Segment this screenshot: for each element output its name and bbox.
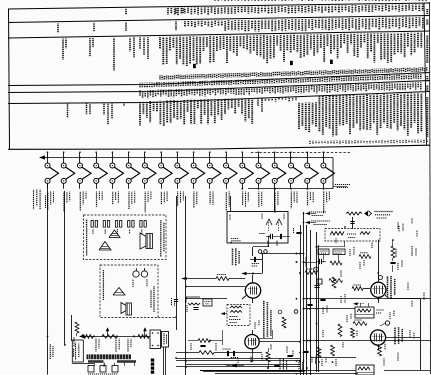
switch position label 17 xyxy=(307,192,309,207)
IF transformer T2 xyxy=(355,307,374,318)
bottom IF transformer xyxy=(356,365,374,375)
switch position label 15 xyxy=(274,192,276,213)
junction on lower rail xyxy=(274,188,276,190)
switch position label 13 xyxy=(242,192,244,206)
tweeter cone symbol 1 xyxy=(109,230,120,238)
junction on lower rail xyxy=(290,188,292,190)
speaker box rotated label right xyxy=(160,220,162,257)
tuner switch contact column 14 xyxy=(256,151,270,188)
wire x231 down from switch area xyxy=(230,196,232,212)
tuner switch contact column 12 xyxy=(224,151,238,188)
socket pin arcs below shield box xyxy=(258,250,262,254)
components cluster left of V6 xyxy=(198,339,210,343)
parts list table rule 4 xyxy=(8,73,430,86)
switch position label 16 xyxy=(290,192,292,209)
V3 plate load resistor chain xyxy=(391,246,395,258)
parts list table rule 6 xyxy=(8,92,430,104)
label TO IF OUTPUT OF TUNER xyxy=(374,211,393,213)
switch position label 1 xyxy=(47,192,49,211)
plate coil winding 2 xyxy=(360,232,370,235)
resistor left of volume line xyxy=(75,322,79,333)
parts list table bottom rule xyxy=(8,145,430,149)
tuner switch contact column 9 xyxy=(175,151,189,188)
antenna input labels xyxy=(33,190,35,210)
wire resistor to V7 xyxy=(229,278,245,280)
resistor volume xyxy=(199,351,214,355)
extra audio label smudges xyxy=(250,356,252,363)
extra bundle junction dots xyxy=(296,261,298,263)
tuner switch contact column 15 xyxy=(272,151,286,188)
cut-off text row above table top rule xyxy=(214,0,216,2)
tuner switch contact column 4 xyxy=(94,151,108,188)
resistor on volume line 2 xyxy=(102,335,117,339)
screen supply vertical wire xyxy=(316,232,318,372)
label V6 6T8 SOUND DISC xyxy=(263,300,265,338)
resistor on volume line 3 xyxy=(138,335,149,339)
discriminator coils xyxy=(230,306,242,308)
wire to RF unit with label P1L TO RF BROWN xyxy=(333,186,347,188)
wire right edge vertical xyxy=(420,299,422,341)
audio wire rows xyxy=(176,358,300,360)
volume control area wire xyxy=(176,352,199,354)
switch position label 2 xyxy=(63,192,65,212)
plate coil winding 1 xyxy=(330,232,344,236)
table band C bold section digits xyxy=(193,64,196,68)
wire B+ to T2 row xyxy=(304,308,356,310)
boxed speaker plug label left xyxy=(72,340,83,362)
antenna bus wire xyxy=(40,157,333,159)
wires from transformer down xyxy=(94,363,96,366)
arrow into discriminator box xyxy=(221,312,226,315)
electrolytic capacitor xyxy=(314,267,319,272)
diode arrow symbol audio xyxy=(231,364,236,368)
resistor horizontal mid right xyxy=(359,255,371,259)
plate wire with arrow above V7 xyxy=(242,273,262,275)
screen supply vertical wire 2 xyxy=(318,245,320,372)
tuner switch contact column 7 xyxy=(142,151,156,188)
wire V7 area vertical xyxy=(262,254,264,274)
sound IF coil top left cluster xyxy=(186,297,200,303)
switch position label 8 xyxy=(160,192,162,205)
caps on audio line xyxy=(227,351,229,356)
tuner switch contact column 1 xyxy=(45,151,59,188)
V3 grid components xyxy=(317,279,322,284)
switch position label 12 xyxy=(225,192,227,211)
tuner switch contact column 10 xyxy=(191,151,205,188)
wire under V3 row xyxy=(304,298,431,300)
third vertical wire near amp xyxy=(71,315,73,341)
wire V4 plate to right xyxy=(386,337,420,339)
B+ bus vertical wire 1 xyxy=(300,225,302,375)
resistor near x305 xyxy=(305,271,317,275)
wire V7 grid row 2 xyxy=(186,286,245,288)
label AGC TO RF YELLOW xyxy=(305,212,310,215)
label V3 6CB6 1ST IF xyxy=(387,276,389,297)
tweeter cone symbol 2 xyxy=(99,242,111,251)
table band A row of rotated part numbers xyxy=(167,8,169,15)
table band C bottom row of digits xyxy=(159,75,161,79)
resistor v near 352 xyxy=(351,328,355,338)
tuner switch contact column 17 xyxy=(305,151,319,188)
wire row mid xyxy=(304,340,431,342)
speaker box rotated label left xyxy=(86,219,88,256)
speaker connector double wire xyxy=(163,348,165,375)
discriminator test point circles xyxy=(278,310,282,314)
small resistor under boxes xyxy=(330,261,342,265)
small coil left of discriminator xyxy=(188,303,200,305)
table band F rotated description texture left group xyxy=(139,101,141,126)
coupling capacitor above V7 xyxy=(254,257,256,262)
speaker symbol in top box xyxy=(140,233,146,249)
label on V7 grid resistor xyxy=(217,274,226,276)
label TEL INT upper xyxy=(49,344,51,359)
long wire from switch down left side xyxy=(47,183,49,374)
IF plate coil dashed box xyxy=(325,229,380,242)
B+ bus vertical wire 3 xyxy=(306,225,308,375)
sound takeoff shield box xyxy=(227,212,288,244)
bottom long wire xyxy=(215,373,358,375)
shield box internal labels xyxy=(231,238,239,240)
IF output plug symbol xyxy=(364,211,368,216)
boxed label component 1 xyxy=(318,249,329,255)
table band F sparse middle marks xyxy=(257,98,259,106)
table band C rotated description column texture xyxy=(159,37,161,49)
boxed label component 2 xyxy=(333,249,345,255)
resistor on volume line 1 xyxy=(82,335,93,339)
junction dots scattered xyxy=(252,273,254,275)
dashed wire from box2 to right xyxy=(158,317,176,319)
switch position label 10 xyxy=(193,192,195,209)
labels under volume line xyxy=(95,339,97,352)
twisted pair wire to IF output xyxy=(346,212,362,215)
capacitor on vertical wire x178 xyxy=(174,299,178,301)
resistor to V3 grid xyxy=(352,287,363,291)
V6 area label smudges xyxy=(261,354,263,361)
resistor below discriminator xyxy=(282,317,286,328)
misc right-side labels xyxy=(411,246,413,256)
phono coil symbols in box 2 xyxy=(133,271,139,277)
switch position label 14 xyxy=(258,192,260,207)
wire bottom right area xyxy=(304,370,357,372)
connect wires in trap cluster xyxy=(323,255,325,260)
parts list table rule 2 xyxy=(8,16,430,23)
label V7 6AU6 SOUND LIM xyxy=(232,248,234,265)
capacitor on B+ wire xyxy=(296,232,301,234)
table band E row of tiny text xyxy=(139,90,141,95)
label 5640 bold xyxy=(151,359,154,362)
antenna bus left arrowhead xyxy=(39,155,45,159)
V6 plate wires xyxy=(259,341,300,343)
switch position label 11 xyxy=(209,192,211,205)
table band D row of tiny text xyxy=(139,83,141,88)
cap at 317 286 xyxy=(314,285,319,287)
wire to discriminator row xyxy=(186,298,227,300)
right-side vertical wire extension xyxy=(420,341,422,370)
table header column rotated captions xyxy=(426,9,428,14)
wire from shield box bottom to V7 xyxy=(268,236,270,247)
parts list table rule 5 xyxy=(8,81,430,93)
tuner switch contact column 5 xyxy=(110,151,124,188)
up arrow tap 2 xyxy=(144,329,146,337)
wire V7 left to resistor xyxy=(182,278,216,280)
resistor v near 340 xyxy=(338,324,342,337)
wire from lower rail down to shield box xyxy=(274,189,276,211)
arrow symbol below V3 xyxy=(353,302,358,305)
second speaker dashed box xyxy=(100,265,158,318)
table band B row of rotated part numbers xyxy=(184,21,186,27)
trap capacitors xyxy=(319,259,321,264)
tuner switch contact column 8 xyxy=(159,151,173,188)
V4 grid cap circle xyxy=(385,321,389,325)
arrow left volume line xyxy=(79,334,85,338)
tuner switch contact column 2 xyxy=(61,151,74,188)
switch position label 7 xyxy=(144,192,146,213)
table band F rotated description texture right group xyxy=(298,103,300,130)
table band F short marks middle xyxy=(261,98,263,101)
resistor R grid V7 xyxy=(216,277,229,281)
resistor h 280 xyxy=(329,279,343,283)
tuner switch contact column 11 xyxy=(207,151,221,188)
parts list table inner right rule xyxy=(424,3,427,145)
switch lower rail wire xyxy=(248,188,333,190)
junction on lower rail xyxy=(306,188,308,190)
transformer lower winding segments xyxy=(88,360,104,363)
speaker symbol in box 2 xyxy=(121,303,126,314)
switch position label 4 xyxy=(96,192,98,207)
vertical wire from switch label area x176 xyxy=(176,196,178,330)
dashed interconnect wire below table xyxy=(251,152,350,154)
label V4 6CB6 2ND IF xyxy=(394,327,396,345)
parts list table top rule xyxy=(8,3,430,9)
decoupling capacitor pair near shield box xyxy=(270,234,272,239)
second long vertical wire xyxy=(64,191,66,345)
caps near V6 xyxy=(287,355,292,357)
up arrow tap 1 xyxy=(107,329,109,337)
label U2 sound takeoff xyxy=(279,358,281,372)
tuner switch contact column 3 xyxy=(78,151,92,188)
audio output transformer winding bar xyxy=(87,354,132,359)
wire V6 to audio row xyxy=(252,353,254,362)
bottom left tiny labels xyxy=(88,373,118,375)
switch position label 3 xyxy=(79,192,81,211)
tuner switch contact column 16 xyxy=(289,151,303,188)
tube V4 6CB6 second IF amp xyxy=(370,330,385,345)
B+ bus vertical wire 4 xyxy=(310,230,312,375)
small boxed part near coil xyxy=(203,299,212,306)
box 2 rotated label xyxy=(102,270,104,300)
screen resistors bottom row xyxy=(317,347,321,357)
terminal strip capacitors in speaker box xyxy=(91,221,93,228)
short feed wires right side xyxy=(317,246,346,248)
V3 grid cap circle xyxy=(379,276,383,280)
caps near B+ bottom xyxy=(307,304,312,306)
switch position label 5 xyxy=(112,192,114,205)
wire across to bundle xyxy=(262,253,304,255)
tuner switch contact column 13 xyxy=(240,151,254,188)
V3 right wires xyxy=(389,298,420,300)
terminal blocks bottom left xyxy=(88,366,94,373)
vertical wire x186 xyxy=(185,196,187,375)
arrow on V7 input wire xyxy=(182,277,187,281)
resistor h below T2 xyxy=(353,322,367,326)
tube V3 6CB6 first IF amp xyxy=(371,282,386,297)
parts list table outer border (left) xyxy=(9,9,10,150)
B+ bus vertical wire 2 xyxy=(303,212,305,375)
boxed connector label left of V6 xyxy=(162,332,169,348)
speaker cabinet dashed box (top) xyxy=(84,215,167,260)
tuner switch contact column 6 xyxy=(126,151,140,188)
junction on lower rail xyxy=(258,188,260,190)
tube V6 6T8 sound disc xyxy=(245,335,259,349)
parts list table rule 3 xyxy=(8,31,430,38)
output transformer box right xyxy=(150,330,161,349)
switch position label 18 xyxy=(323,192,325,214)
tube V7 6AU6 sound limiter xyxy=(245,283,260,298)
switch position label 6 xyxy=(128,192,130,210)
junction dots on volume line xyxy=(93,335,95,337)
wire from plate coil box down to V3 xyxy=(378,240,380,278)
sound discriminator dashed box xyxy=(227,305,250,326)
wire joining verticals to amp xyxy=(72,363,94,365)
tuner switch contact column 18 xyxy=(321,151,335,188)
label SOUND TIM rotated on bus xyxy=(305,257,307,267)
page right edge rule xyxy=(430,2,431,374)
V6 cathode resistor xyxy=(266,352,270,362)
switch row right end wire xyxy=(332,158,334,189)
label B+ 140V TO RF RED xyxy=(305,221,310,224)
volume pot line xyxy=(80,336,150,338)
wire plug down to coil box xyxy=(352,217,354,229)
label TEL INT lower xyxy=(73,348,75,357)
trimmer symbols inside shield box xyxy=(266,219,272,225)
extra bundle dots bottom xyxy=(299,360,301,362)
switch position label 9 xyxy=(177,192,179,207)
extra right-side label smudges xyxy=(349,249,351,256)
table band F bottom digit row xyxy=(309,141,311,144)
junction on lower rail xyxy=(323,188,325,190)
cone symbol in box 2 xyxy=(113,288,125,296)
junction on lower rail xyxy=(241,188,243,190)
